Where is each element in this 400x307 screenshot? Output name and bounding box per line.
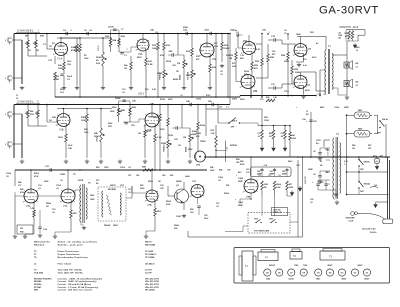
svg-text:V 1A: V 1A [57, 58, 63, 61]
svg-text:C37: C37 [246, 172, 249, 174]
svg-text:.02: .02 [220, 74, 223, 76]
svg-text:C4A: C4A [150, 29, 154, 32]
svg-text:100: 100 [368, 148, 371, 150]
svg-text:1.7K: 1.7K [240, 55, 245, 57]
svg-text:R5B: R5B [84, 129, 88, 131]
svg-text:CHANNEL II: CHANNEL II [17, 100, 39, 104]
svg-text:INTENS: INTENS [230, 145, 238, 147]
svg-text:R21: R21 [232, 63, 235, 65]
svg-text:V3B: V3B [246, 197, 251, 199]
svg-text:150K: 150K [264, 184, 269, 186]
svg-text:Tube 6Q5 77F, 750 Ma: Tube 6Q5 77F, 750 Ma [58, 270, 83, 272]
svg-text:Control - 500 Ohm wire wound: Control - 500 Ohm wire wound [58, 289, 93, 292]
svg-text:220K: 220K [121, 36, 126, 38]
svg-text:.01: .01 [257, 136, 260, 138]
svg-text:6.8K: 6.8K [232, 66, 237, 68]
svg-text:.02: .02 [128, 192, 131, 194]
svg-text:CLIP: CLIP [349, 221, 354, 223]
svg-text:2: 2 [60, 201, 61, 203]
svg-text:C21A: C21A [120, 166, 125, 169]
svg-text:C17: C17 [18, 185, 21, 187]
svg-text:SPKR: SPKR [78, 180, 84, 182]
svg-text:VRs-511-370F: VRs-511-370F [145, 281, 160, 283]
svg-text:FOT SWITCHES: FOT SWITCHES [254, 231, 270, 233]
svg-text:GA-30RVT: GA-30RVT [319, 5, 379, 17]
svg-text:.05: .05 [284, 30, 287, 32]
svg-text:V1A: V1A [60, 91, 64, 94]
svg-text:R41: R41 [292, 134, 295, 137]
svg-text:R17: R17 [214, 43, 217, 45]
svg-text:Filter Choke: Filter Choke [58, 263, 72, 266]
svg-text:R46: R46 [219, 169, 222, 172]
svg-text:7: 7 [73, 191, 74, 193]
svg-text:R8A: R8A [113, 39, 117, 42]
svg-text:R16A: R16A [160, 98, 165, 101]
svg-text:7: 7 [66, 44, 67, 46]
svg-text:2000: 2000 [183, 27, 189, 29]
svg-text:Power Transformer: Power Transformer [58, 251, 80, 253]
svg-text:4.0: 4.0 [324, 93, 327, 96]
svg-text:R4A: R4A [55, 78, 59, 81]
svg-text:100uF: 100uF [115, 98, 122, 100]
svg-text:R13b: R13b [200, 125, 206, 127]
svg-text:C57: C57 [128, 175, 131, 177]
svg-text:R27: R27 [272, 54, 275, 56]
svg-text:Reverberation Transformer: Reverberation Transformer [58, 256, 89, 259]
svg-text:LFB: LFB [196, 165, 200, 167]
svg-text:220K: 220K [140, 188, 145, 190]
svg-text:TREM #33: TREM #33 [273, 212, 282, 214]
svg-text:250K: 250K [188, 149, 193, 151]
svg-text:BASS: BASS [173, 78, 179, 81]
svg-text:C33A: C33A [334, 106, 339, 109]
svg-text:.05: .05 [310, 202, 313, 204]
svg-text:LA26: LA26 [185, 175, 190, 178]
svg-text:1500: 1500 [55, 76, 59, 78]
svg-text:2: 2 [23, 201, 24, 203]
svg-text:R52: R52 [140, 185, 143, 187]
svg-text:TF-91549: TF-91549 [145, 256, 155, 259]
svg-text:R7A: R7A [96, 62, 101, 65]
svg-text:1.5V: 1.5V [48, 60, 53, 62]
svg-text:470K: 470K [160, 54, 165, 57]
svg-text:L1: L1 [306, 111, 308, 113]
svg-text:C2B: C2B [68, 148, 72, 150]
svg-text:6EU7: 6EU7 [327, 265, 333, 267]
svg-text:7: 7 [256, 181, 257, 183]
svg-text:1.1: 1.1 [226, 107, 229, 109]
svg-text:2: 2 [293, 87, 294, 89]
svg-text:.01: .01 [268, 175, 271, 177]
svg-text:R50A: R50A [46, 202, 51, 205]
svg-text:6EU7: 6EU7 [357, 265, 363, 267]
svg-text:R3B: R3B [52, 117, 56, 119]
svg-text:.05: .05 [313, 151, 316, 153]
svg-text:C34: C34 [325, 171, 328, 174]
svg-text:1500: 1500 [58, 68, 64, 70]
svg-text:100K: 100K [276, 187, 281, 189]
svg-text:220K: 220K [110, 111, 115, 113]
svg-text:10: 10 [356, 50, 358, 52]
svg-text:V2A: V2A [138, 53, 143, 56]
svg-text:.05: .05 [52, 212, 55, 214]
svg-text:.01: .01 [278, 175, 281, 177]
svg-text:CHANNEL I: CHANNEL I [17, 29, 39, 33]
svg-text:C15A: C15A [56, 184, 61, 187]
svg-text:1.5K: 1.5K [211, 133, 216, 135]
svg-text:470K: 470K [166, 203, 171, 206]
svg-text:TF-106F: TF-106F [145, 251, 154, 253]
svg-text:7591: 7591 [296, 87, 300, 89]
svg-text:TW1: TW1 [254, 219, 258, 221]
svg-text:12-718: 12-718 [145, 270, 152, 272]
svg-text:R60: R60 [96, 167, 99, 169]
svg-text:VRs-511-3751: VRs-511-3751 [145, 284, 160, 286]
svg-text:475V: 475V [206, 94, 211, 97]
svg-text:470K: 470K [20, 191, 25, 194]
svg-text:7: 7 [305, 45, 306, 47]
svg-text:C6A: C6A [230, 29, 234, 32]
svg-text:C31: C31 [257, 133, 260, 135]
svg-text:Control - 500K, 02 audio(inten: Control - 500K, 02 audio(intensity) [58, 280, 97, 283]
svg-text:BASS: BASS [179, 74, 182, 80]
svg-text:7: 7 [36, 191, 37, 193]
svg-text:410V: 410V [312, 56, 317, 59]
svg-text:C9: C9 [284, 33, 286, 35]
svg-text:R19: R19 [226, 55, 229, 57]
svg-text:.02: .02 [122, 92, 125, 94]
svg-text:150K: 150K [289, 187, 294, 189]
svg-text:C12: C12 [260, 99, 263, 101]
svg-text:R12A: R12A [166, 60, 171, 63]
svg-text:100K: 100K [84, 132, 89, 134]
svg-text:.05: .05 [6, 176, 9, 178]
svg-text:1.5M: 1.5M [227, 146, 229, 151]
svg-text:C13: C13 [122, 89, 125, 91]
svg-text:500V: 500V [240, 99, 245, 101]
svg-text:20MF: 20MF [238, 205, 244, 207]
svg-text:340V: 340V [232, 98, 238, 101]
svg-text:1M: 1M [124, 68, 127, 70]
svg-text:2.2K: 2.2K [148, 64, 153, 66]
svg-text:6EU7: 6EU7 [60, 89, 65, 91]
svg-text:L57: L57 [219, 107, 222, 109]
svg-text:30MF: 30MF [344, 107, 350, 109]
svg-text:20MF: 20MF [308, 169, 314, 171]
svg-text:C9A: C9A [262, 29, 266, 32]
svg-text:C22: C22 [310, 199, 313, 201]
svg-text:INPUT: INPUT [110, 185, 117, 187]
svg-text:1M: 1M [20, 228, 23, 230]
svg-text:R1B: R1B [30, 114, 34, 116]
svg-text:.005: .005 [172, 65, 176, 67]
svg-text:C.1: C.1 [124, 55, 127, 57]
svg-text:MASTER: MASTER [304, 175, 307, 184]
svg-text:C21: C21 [216, 203, 219, 205]
svg-text:V1B: V1B [59, 129, 64, 132]
svg-text:Switches - push, push: Switches - push, push [58, 244, 84, 247]
svg-text:1M: 1M [178, 145, 181, 147]
svg-text:SW-75: SW-75 [145, 242, 152, 244]
svg-text:Tube 1400 77F, 750 Ma: Tube 1400 77F, 750 Ma [58, 272, 84, 275]
svg-text:GZ34: GZ34 [288, 278, 294, 281]
svg-text:1M: 1M [183, 137, 186, 139]
svg-text:V4b: V4b [253, 90, 258, 93]
svg-text:R47: R47 [226, 184, 229, 187]
svg-text:.1: .1 [126, 123, 128, 125]
svg-text:CH-940-9: CH-940-9 [145, 263, 155, 266]
svg-text:C11A: C11A [284, 90, 289, 93]
svg-text:1M: 1M [158, 181, 161, 183]
svg-text:250K: 250K [44, 181, 49, 183]
svg-text:7: 7 [202, 186, 203, 188]
svg-text:20MF: 20MF [238, 181, 244, 183]
svg-text:TREM: TREM [200, 141, 206, 143]
svg-text:150K: 150K [264, 120, 269, 122]
svg-text:1M: 1M [46, 206, 49, 208]
svg-text:1M: 1M [138, 133, 141, 135]
svg-text:7: 7 [148, 41, 149, 43]
svg-text:1M: 1M [49, 120, 52, 122]
svg-text:R60: R60 [356, 47, 359, 49]
svg-text:470K: 470K [160, 128, 165, 131]
svg-text:SW-2,3a-5: SW-2,3a-5 [34, 245, 45, 247]
svg-text:500K A: 500K A [96, 56, 103, 59]
svg-text:C39: C39 [296, 165, 299, 167]
svg-text:R58A: R58A [174, 224, 179, 227]
svg-text:2: 2 [190, 196, 191, 198]
svg-text:.02: .02 [236, 32, 239, 34]
svg-text:BASS: BASS [185, 146, 188, 152]
svg-text:.02: .02 [60, 180, 63, 182]
svg-text:C20: C20 [204, 215, 207, 217]
svg-text:VOLUME: VOLUME [188, 71, 190, 80]
svg-text:R57: R57 [289, 184, 292, 186]
svg-text:C17: C17 [128, 189, 131, 191]
svg-text:C18: C18 [160, 185, 163, 187]
svg-text:220K: 220K [295, 72, 301, 74]
svg-text:TREBLE: TREBLE [160, 72, 162, 80]
svg-text:7591: 7591 [296, 53, 300, 55]
svg-text:6EU7: 6EU7 [137, 57, 142, 59]
svg-text:100K: 100K [176, 216, 181, 218]
svg-text:SW 4c: SW 4c [382, 118, 389, 121]
svg-text:C36A: C36A [238, 201, 243, 204]
svg-text:1M: 1M [177, 63, 180, 65]
svg-text:.02: .02 [38, 188, 41, 190]
svg-text:2: 2 [243, 191, 244, 193]
svg-text:7: 7 [68, 115, 69, 117]
svg-text:R8,R40: R8,R40 [34, 280, 42, 283]
svg-text:LOUD: LOUD [97, 136, 99, 142]
svg-text:2: 2 [144, 125, 145, 127]
svg-text:.01: .01 [180, 95, 183, 97]
svg-text:SW-70445: SW-70445 [145, 244, 156, 247]
svg-text:J2: J2 [16, 98, 18, 100]
svg-text:2: 2 [56, 125, 57, 127]
svg-text:.005: .005 [160, 188, 164, 190]
svg-text:210 V: 210 V [138, 93, 145, 96]
svg-text:R7,R47: R7,R47 [34, 286, 42, 289]
svg-text:SW 4A: SW 4A [364, 183, 371, 186]
svg-text:68K: 68K [35, 113, 39, 115]
svg-text:8Ω: 8Ω [356, 82, 359, 84]
svg-text:R59: R59 [345, 33, 348, 35]
svg-text:470K: 470K [71, 49, 76, 52]
svg-text:C16A: C16A [6, 172, 11, 175]
svg-text:12-77F: 12-77F [145, 273, 152, 275]
svg-text:C8: C8 [220, 71, 222, 73]
svg-text:R15: R15 [196, 56, 199, 58]
svg-text:R56A: R56A [224, 192, 229, 195]
svg-text:2: 2 [136, 49, 137, 51]
svg-text:100K: 100K [84, 58, 89, 60]
svg-text:220K: 220K [132, 107, 137, 109]
svg-text:GROUND: GROUND [346, 218, 356, 220]
svg-text:VR-19356: VR-19356 [145, 290, 155, 292]
svg-text:R15B: R15B [196, 133, 201, 135]
svg-text:2.2K: 2.2K [152, 89, 157, 91]
svg-text:SW-1a,1b,17,13: SW-1a,1b,17,13 [34, 242, 50, 244]
svg-text:2: 2 [53, 54, 54, 56]
svg-text:C19: C19 [52, 209, 55, 211]
svg-text:R46: R46 [210, 166, 213, 169]
svg-text:Control - 1M aud,25 5A (Bass): Control - 1M aud,25 5A (Bass) [58, 283, 92, 286]
svg-text:.02: .02 [204, 30, 207, 32]
svg-text:470K: 470K [240, 163, 245, 166]
svg-text:154V: 154V [60, 173, 66, 176]
svg-text:R51A: R51A [34, 172, 39, 175]
svg-text:R3: R3 [52, 43, 54, 45]
svg-text:Switch - off, standby, on-on R: Switch - off, standby, on-on Rotary [58, 241, 98, 244]
svg-text:100K: 100K [152, 48, 158, 50]
svg-text:8Ω: 8Ω [356, 63, 359, 65]
svg-text:Controls - 250K, 1S watts(Revr: Controls - 250K, 1S watts(Revrb,Depth) [58, 277, 103, 280]
svg-text:1M: 1M [229, 58, 232, 60]
svg-text:6V6GT: 6V6GT [269, 265, 276, 267]
svg-text:Control - 1.5 aud, 25 5A (Freq: Control - 1.5 aud, 25 5A (Frequency) [58, 286, 99, 289]
svg-text:100K: 100K [90, 199, 95, 201]
svg-text:6EU7: 6EU7 [364, 279, 370, 281]
svg-text:Output Transformer: Output Transformer [58, 253, 80, 256]
svg-text:SW 4b: SW 4b [364, 161, 371, 164]
svg-text:220K: 220K [284, 61, 290, 63]
svg-text:7: 7 [305, 77, 306, 79]
svg-text:J1: J1 [16, 95, 18, 97]
svg-text:V7B: V7B [147, 204, 152, 207]
svg-text:110-125 V AC: 110-125 V AC [362, 228, 376, 231]
svg-text:100K: 100K [104, 167, 109, 169]
svg-text:R2,R9b: R2,R9b [34, 284, 42, 286]
svg-text:C35: C35 [313, 121, 316, 123]
svg-text:R56A: R56A [276, 183, 281, 186]
svg-text:R5: R5 [84, 55, 86, 57]
svg-text:DELAY: DELAY [104, 224, 111, 227]
svg-text:R53A: R53A [166, 200, 171, 203]
svg-text:175V: 175V [196, 99, 202, 101]
svg-text:.005: .005 [174, 139, 178, 141]
svg-text:6EU7: 6EU7 [341, 279, 347, 281]
svg-text:R30B: R30B [81, 117, 87, 119]
svg-text:2W: 2W [264, 187, 267, 189]
svg-text:2.2K: 2.2K [157, 137, 162, 139]
svg-text:50-60~: 50-60~ [370, 232, 378, 234]
svg-text:1M: 1M [49, 46, 52, 48]
svg-text:LOUD: LOUD [98, 45, 100, 51]
svg-text:V4a: V4a [243, 40, 248, 43]
svg-text:1M: 1M [269, 136, 272, 138]
svg-text:R56: R56 [352, 145, 355, 147]
svg-text:400V: 400V [305, 89, 310, 92]
svg-text:VRs-511-3775: VRs-511-3775 [145, 278, 160, 280]
svg-text:MONITOR JACK: MONITOR JACK [340, 26, 359, 29]
svg-text:R8B: R8B [118, 111, 122, 113]
svg-text:.1: .1 [268, 99, 270, 101]
svg-text:.02: .02 [218, 180, 221, 182]
svg-text:25uF: 25uF [67, 76, 73, 78]
svg-text:R49: R49 [18, 181, 21, 184]
svg-text:1500: 1500 [214, 46, 218, 48]
svg-text:L35: L35 [246, 169, 249, 171]
svg-text:100K: 100K [153, 117, 158, 119]
svg-text:450V: 450V [288, 160, 293, 163]
svg-text:2N508: 2N508 [176, 181, 182, 183]
svg-text:REVERB: REVERB [108, 189, 117, 191]
svg-text:154V: 154V [90, 194, 95, 197]
svg-text:TF-91543-1: TF-91543-1 [145, 253, 157, 256]
svg-text:C38A: C38A [238, 177, 243, 180]
svg-text:1.5K: 1.5K [273, 97, 278, 99]
svg-text:SW 2: SW 2 [232, 121, 238, 123]
svg-text:.02: .02 [216, 206, 219, 208]
svg-text:100K: 100K [81, 120, 86, 122]
svg-text:2.2M: 2.2M [292, 138, 297, 140]
svg-text:2: 2 [145, 200, 146, 202]
svg-text:465V: 465V [320, 106, 325, 109]
svg-text:68K: 68K [33, 43, 37, 45]
svg-text:100K: 100K [224, 48, 230, 50]
svg-text:68K: 68K [25, 113, 29, 115]
svg-text:R61: R61 [170, 175, 173, 177]
svg-text:7: 7 [254, 43, 255, 45]
svg-text:R12B: R12B [168, 135, 173, 137]
svg-text:TREBLE: TREBLE [164, 144, 166, 152]
svg-text:2: 2 [293, 55, 294, 57]
svg-text:100uF: 100uF [108, 27, 115, 29]
svg-text:7: 7 [157, 192, 158, 194]
svg-text:220K: 220K [112, 107, 117, 109]
svg-text:250K: 250K [210, 170, 215, 172]
svg-text:115V AC: 115V AC [327, 148, 330, 156]
svg-text:470K: 470K [34, 175, 39, 178]
svg-text:R49: R49 [20, 188, 23, 191]
svg-text:R7B: R7B [108, 126, 112, 128]
svg-text:100: 100 [352, 148, 355, 150]
svg-text:R57,R67,R74,R75: R57,R67,R74,R75 [34, 277, 52, 280]
svg-text:2: 2 [240, 87, 241, 89]
svg-text:220K: 220K [105, 36, 110, 38]
svg-text:R55: R55 [190, 209, 193, 211]
svg-text:TW2: TW2 [269, 219, 273, 221]
svg-text:68K: 68K [25, 43, 29, 45]
svg-text:.05: .05 [128, 167, 131, 169]
svg-text:R48: R48 [240, 160, 243, 163]
svg-text:.02: .02 [280, 136, 283, 138]
svg-text:115V: 115V [316, 140, 321, 142]
svg-text:C29: C29 [131, 125, 134, 127]
svg-text:7: 7 [253, 77, 254, 79]
svg-text:C5A: C5A [67, 63, 71, 66]
